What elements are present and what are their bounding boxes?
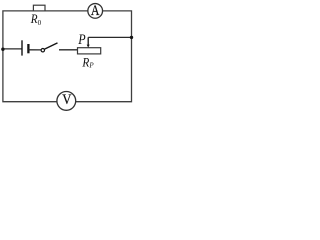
svg-text:R: R — [81, 56, 89, 70]
svg-text:P: P — [88, 62, 94, 70]
svg-text:A: A — [91, 3, 100, 19]
svg-text:V: V — [62, 92, 72, 108]
svg-text:P: P — [77, 32, 85, 48]
svg-text:0: 0 — [38, 19, 42, 27]
